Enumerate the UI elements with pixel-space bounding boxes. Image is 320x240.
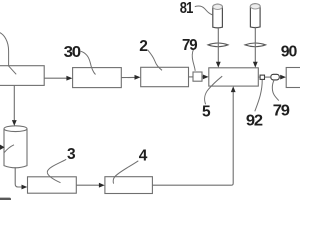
leader 2 <box>148 50 162 71</box>
arrowhead down into 5 top from left lamp <box>216 62 221 68</box>
leader 5 <box>205 76 223 104</box>
block 2 <box>141 67 189 86</box>
wire tank 20 to 3 <box>15 167 22 187</box>
wire 2 to connector 79 <box>189 76 194 78</box>
svg-text:3: 3 <box>67 146 76 163</box>
wire 5 to connector 92 <box>258 76 260 78</box>
svg-text:92: 92 <box>246 113 263 130</box>
arrowhead into tank 20 top <box>12 120 17 126</box>
lamp 81 right cylinder <box>250 4 260 28</box>
leader 79 left <box>192 49 195 71</box>
wire lamp right down to 5 <box>254 27 256 62</box>
block 1 (cut off at left edge) <box>0 66 44 86</box>
svg-text:4: 4 <box>139 148 148 165</box>
svg-text:30: 30 <box>64 44 81 61</box>
wire lamp left down to 5 <box>217 27 219 62</box>
leader 4 <box>113 161 138 184</box>
block 3 <box>28 177 77 193</box>
wire 1 down to tank 20 <box>13 85 15 120</box>
tank 20 cylinder body <box>4 129 27 168</box>
leader 79 right <box>272 80 278 101</box>
block 4 <box>105 177 152 194</box>
arrowhead into 4 <box>99 183 105 188</box>
arrowhead into 3 <box>22 185 28 190</box>
svg-text:81: 81 <box>180 0 194 17</box>
wire connector 79 to 5 <box>202 76 203 78</box>
arrowhead into 90 <box>280 75 286 80</box>
svg-text:79: 79 <box>182 37 198 54</box>
leader 92 <box>255 80 262 112</box>
leader 30 <box>81 51 96 74</box>
wire 4 up to 5 <box>152 92 233 185</box>
tank 20 top ellipse <box>4 126 27 132</box>
arrowhead down into 5 top from right lamp <box>253 62 258 68</box>
connector 79 left square <box>193 72 202 81</box>
svg-text:2: 2 <box>139 38 147 55</box>
wire 3 to 4 <box>76 184 99 186</box>
svg-text:90: 90 <box>281 43 297 60</box>
connector 92 small square <box>260 75 264 79</box>
block 90 (cut off at right edge) <box>286 68 307 88</box>
block 30 <box>73 68 122 88</box>
svg-text:5: 5 <box>202 103 211 120</box>
arrowhead into 30 <box>66 76 72 81</box>
lamp 81 left cylinder <box>213 4 223 28</box>
scan artifact bottom-left <box>0 198 11 202</box>
leader for block 1 <box>0 33 16 75</box>
arrowhead leader into tank 20 side <box>0 145 5 150</box>
wire 1 to 30 <box>44 77 67 79</box>
arrowhead into 5 from 79 <box>203 75 209 80</box>
leader arrow into tank 20 <box>4 145 14 153</box>
leader 81 <box>195 6 213 15</box>
lens left <box>208 43 228 47</box>
arrowhead up into 5 bottom <box>231 86 236 92</box>
wire capsule 79 to 90 <box>279 76 280 78</box>
lamp 81 right cylinder cap <box>250 4 260 9</box>
lamp 81 left cylinder cap <box>213 4 223 9</box>
wire 30 to 2 <box>121 76 135 78</box>
connector 79 right capsule <box>271 74 280 80</box>
arrowhead into 2 <box>135 75 141 80</box>
lens right <box>245 43 266 47</box>
leader 3 <box>47 159 66 182</box>
block 5 <box>209 68 258 86</box>
svg-text:79: 79 <box>273 103 291 120</box>
wire connector 92 to capsule 79 <box>265 76 271 78</box>
